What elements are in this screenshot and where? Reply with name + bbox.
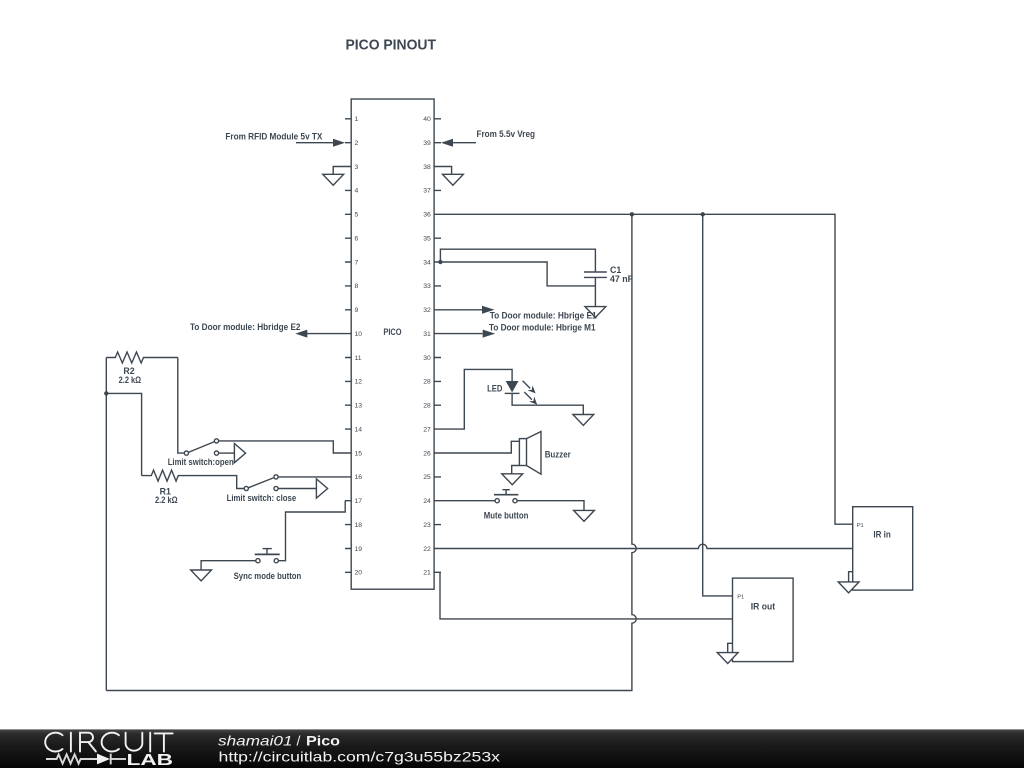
- svg-text:IR in: IR in: [873, 529, 890, 539]
- wire buzzer to ground: [512, 466, 520, 474]
- module IR in: [853, 507, 913, 590]
- wire left loop vertical x=106: [105, 358, 107, 691]
- svg-text:2: 2: [355, 140, 359, 147]
- ground below C1: [585, 307, 606, 318]
- footer bar: [0, 729, 1024, 768]
- switch SW2 Limit switch: close: [244, 475, 327, 498]
- module IR out: [733, 578, 794, 662]
- wire vertical from junction 703,214 to IR out P1: [703, 214, 733, 596]
- ground below LED: [573, 415, 594, 426]
- svg-text:32: 32: [423, 307, 431, 314]
- wire limit switch close to pin 16: [278, 476, 345, 478]
- svg-text:2.2 kΩ: 2.2 kΩ: [119, 375, 142, 385]
- svg-text:13: 13: [355, 403, 363, 410]
- junction at (632,214): [630, 212, 634, 216]
- ground at pin 3: [323, 167, 345, 186]
- IC U1 PICO body: [351, 99, 434, 589]
- ground right of mute button: [574, 510, 595, 521]
- svg-text:24: 24: [423, 498, 431, 505]
- ground at IR in: [838, 572, 859, 593]
- svg-text:LED: LED: [487, 383, 502, 393]
- svg-text:16: 16: [355, 474, 363, 481]
- svg-text:14: 14: [355, 426, 363, 433]
- svg-text:8: 8: [355, 283, 359, 290]
- svg-text:From RFID Module 5v TX: From RFID Module 5v TX: [225, 132, 322, 142]
- svg-text:Pico: Pico: [306, 732, 340, 748]
- svg-text:From 5.5v Vreg: From 5.5v Vreg: [477, 129, 536, 139]
- svg-text:5: 5: [355, 212, 359, 219]
- svg-text:20: 20: [355, 570, 363, 577]
- svg-text:12: 12: [355, 379, 363, 386]
- svg-text:To Door module: Hbrige M1: To Door module: Hbrige M1: [489, 322, 596, 332]
- svg-text:Limit switch:open: Limit switch:open: [168, 457, 234, 467]
- svg-text:30: 30: [423, 355, 431, 362]
- svg-text:IR out: IR out: [751, 601, 775, 611]
- wire sync button to ground: [201, 561, 256, 570]
- svg-text:1: 1: [355, 116, 359, 123]
- wire pin 21 to IR out: [440, 572, 733, 619]
- ground at pin 38: [441, 167, 463, 186]
- svg-text:28: 28: [423, 403, 431, 410]
- junction at (703,214): [701, 212, 705, 216]
- svg-text:To Door module: Hbridge E2: To Door module: Hbridge E2: [190, 322, 301, 332]
- wire junction to R1: [106, 393, 141, 475]
- svg-text:Limit switch: close: Limit switch: close: [227, 493, 297, 503]
- ground below buzzer: [502, 474, 523, 485]
- IC pin stubs 1-20 and 40-21: [345, 119, 441, 573]
- wire C1 bottom to ground: [594, 277, 596, 306]
- wire pin 34 branch to C1 bottom: [440, 262, 595, 286]
- wire pin 17 to sync button: [278, 501, 345, 561]
- svg-text:7: 7: [355, 259, 359, 266]
- switch SW1 Limit switch:open: [184, 439, 245, 463]
- svg-text:/: /: [297, 732, 301, 748]
- svg-text:22: 22: [423, 546, 431, 553]
- IC pin numbers: [355, 116, 432, 576]
- svg-text:21: 21: [423, 570, 431, 577]
- svg-text:23: 23: [423, 522, 431, 529]
- LED D1: [505, 381, 538, 405]
- wire pin 36 to IR in P1: [441, 214, 853, 524]
- ground at IR out: [717, 643, 738, 663]
- push button Mute: [494, 490, 518, 503]
- svg-text:31: 31: [423, 331, 431, 338]
- svg-text:P1: P1: [857, 523, 864, 529]
- logo CIRCUIT lettering: [45, 733, 172, 752]
- svg-text:http://circuitlab.com/c7g3u55b: http://circuitlab.com/c7g3u55bz253x: [219, 749, 501, 765]
- resistor R1: [142, 470, 245, 488]
- svg-text:34: 34: [423, 259, 431, 266]
- footer author line: [218, 732, 340, 748]
- svg-text:15: 15: [355, 450, 363, 457]
- svg-text:4: 4: [355, 188, 359, 195]
- logo resistor-diode glyph: [46, 754, 126, 765]
- svg-text:19: 19: [355, 546, 363, 553]
- wire pin 27 to LED anode: [441, 369, 512, 429]
- svg-text:27: 27: [423, 426, 431, 433]
- label R2 2.2 kOhm: [119, 366, 142, 385]
- push button Sync mode: [255, 549, 280, 563]
- net label From RFID Module 5v TX (pin 2): [225, 132, 345, 147]
- label C1 47 nF: [610, 265, 634, 284]
- svg-text:PICO: PICO: [383, 327, 401, 337]
- wire pin 24 to mute button: [441, 500, 495, 502]
- svg-text:3: 3: [355, 164, 359, 171]
- net label To Door module: Hbridge E2 (pin 10): [190, 322, 345, 338]
- svg-text:38: 38: [423, 164, 431, 171]
- svg-text:40: 40: [423, 116, 431, 123]
- svg-text:37: 37: [423, 188, 431, 195]
- net label From 5.5v Vreg (pin 39): [441, 129, 535, 147]
- net label To Door module: Hbrige E1 (pin 32): [441, 306, 597, 321]
- svg-text:33: 33: [423, 283, 431, 290]
- junction at (106,393): [104, 391, 108, 395]
- svg-text:28: 28: [423, 379, 431, 386]
- wire pin 26 to buzzer: [441, 441, 519, 453]
- net label To Door module: Hbrige M1 (pin 31): [441, 322, 596, 337]
- svg-text:35: 35: [423, 236, 431, 243]
- svg-text:10: 10: [355, 331, 363, 338]
- junction at pin 34: [438, 260, 442, 264]
- label R1 2.2 kOhm: [155, 486, 178, 505]
- svg-text:LAB: LAB: [127, 752, 174, 768]
- svg-text:Buzzer: Buzzer: [545, 449, 572, 459]
- svg-text:17: 17: [355, 498, 363, 505]
- svg-text:39: 39: [423, 140, 431, 147]
- wire pin 34 to C1 top: [440, 249, 595, 272]
- svg-text:47 nF: 47 nF: [610, 274, 634, 284]
- wire pin 22 to IR in (hops over vertical at x=703): [441, 544, 853, 548]
- svg-text:Mute button: Mute button: [484, 510, 529, 520]
- svg-text:9: 9: [355, 307, 359, 314]
- svg-text:To Door module: Hbrige E1: To Door module: Hbrige E1: [490, 311, 597, 321]
- wire mute button to ground: [517, 501, 584, 511]
- svg-text:2.2 kΩ: 2.2 kΩ: [155, 495, 178, 505]
- wire limit switch open to pin 15: [219, 441, 345, 453]
- svg-text:36: 36: [423, 212, 431, 219]
- wire LED cathode to ground: [512, 393, 583, 414]
- svg-text:PICO PINOUT: PICO PINOUT: [346, 36, 437, 53]
- svg-text:25: 25: [423, 474, 431, 481]
- svg-text:26: 26: [423, 450, 431, 457]
- capacitor C1: [584, 272, 607, 277]
- svg-text:18: 18: [355, 522, 363, 529]
- svg-text:Sync mode button: Sync mode button: [234, 571, 302, 581]
- resistor R2: [106, 352, 178, 363]
- buzzer SP1: [519, 432, 541, 475]
- wire vertical from junction 632,214 down to bottom loop (hops at y=548 and y=619): [106, 214, 636, 690]
- wire R2 right to limit switch open: [178, 358, 185, 454]
- svg-text:11: 11: [355, 355, 362, 362]
- svg-text:P1: P1: [737, 594, 744, 600]
- svg-text:6: 6: [355, 236, 359, 243]
- svg-text:shamai01: shamai01: [218, 732, 293, 748]
- ground left of sync button: [191, 570, 212, 581]
